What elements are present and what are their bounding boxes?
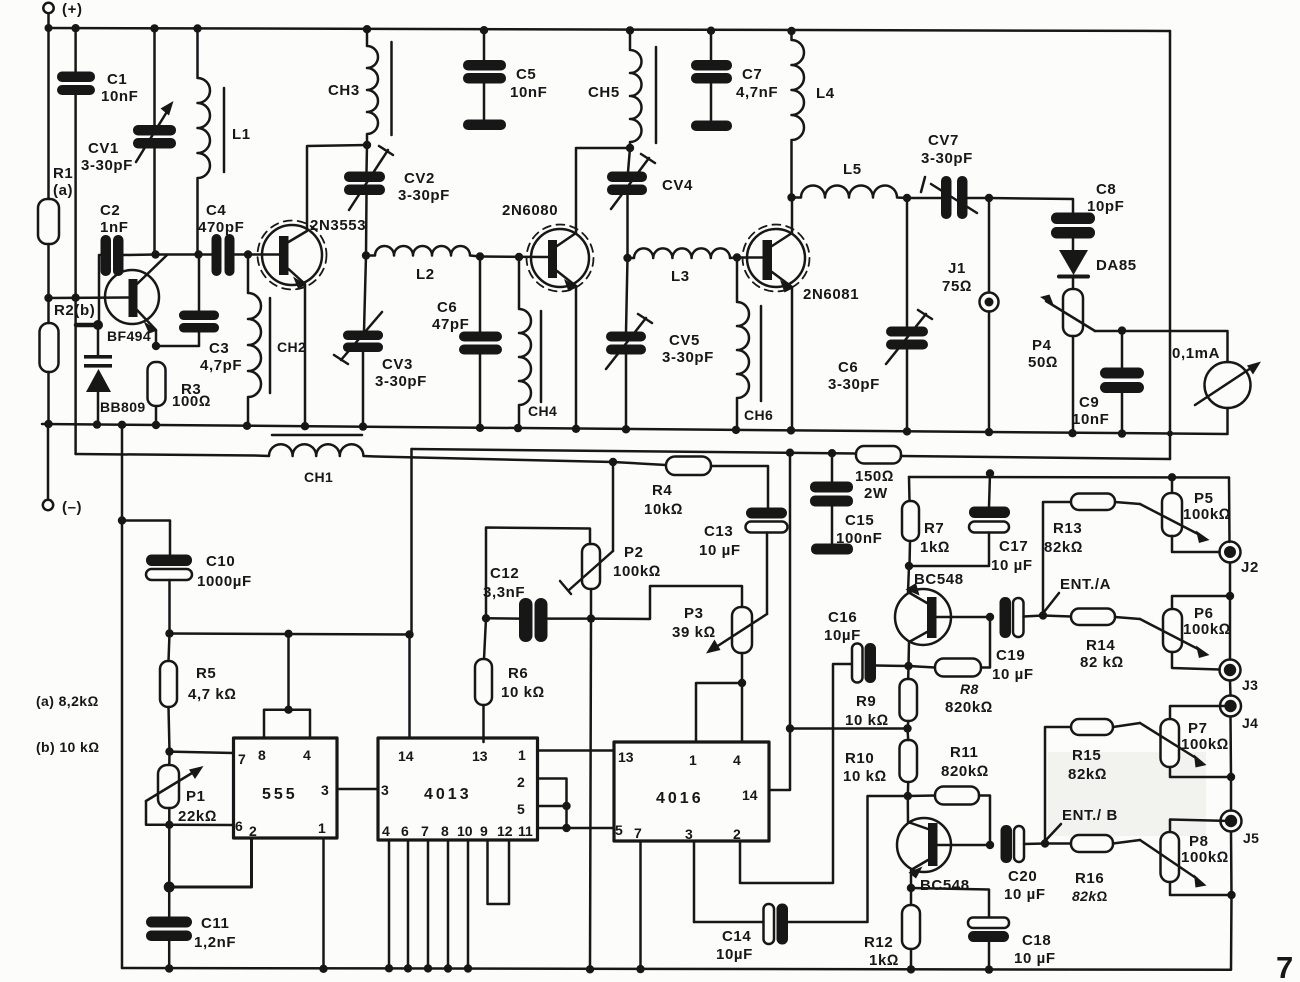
capacitor C1: [57, 72, 95, 96]
node C1 top: [71, 24, 79, 32]
node ground left: [44, 420, 52, 428]
svg-text:11: 11: [518, 823, 533, 839]
svg-text:CH1: CH1: [304, 469, 333, 485]
svg-text:C17: C17: [999, 538, 1028, 555]
node 555 pin1 ground: [319, 965, 327, 973]
wire P4 wiper to meter line: [1095, 331, 1228, 362]
resistor R6: [475, 618, 492, 742]
node CH3 top: [363, 25, 371, 33]
svg-text:4,7 kΩ: 4,7 kΩ: [188, 686, 236, 703]
node CH4 ground: [514, 424, 522, 432]
op-amp U1 555: [234, 634, 379, 969]
node 4016 pin14 riser top: [786, 449, 794, 457]
svg-text:C6: C6: [838, 359, 858, 376]
node P7 bottom bus: [1227, 773, 1235, 781]
svg-text:R12: R12: [864, 934, 893, 951]
resistor R4: [613, 457, 768, 509]
potentiometer P1: [146, 752, 204, 825]
inductor L1: [198, 29, 225, 255]
wire R2 bottom to ground: [47, 372, 50, 424]
svg-text:CV5: CV5: [669, 332, 700, 349]
node V+ left: [165, 629, 173, 637]
svg-text:10nF: 10nF: [101, 88, 138, 105]
node 555 pin7 tap: [165, 747, 173, 755]
svg-text:4: 4: [382, 823, 390, 839]
resistor R12: [902, 888, 920, 969]
svg-text:P3: P3: [684, 605, 704, 622]
svg-text:(b) 10 kΩ: (b) 10 kΩ: [36, 739, 99, 755]
node 555 supply bracket: [284, 706, 292, 714]
svg-text:3-30pF: 3-30pF: [398, 187, 450, 204]
node 4013 ground pins: [385, 964, 472, 973]
svg-text:4,7pF: 4,7pF: [200, 357, 242, 374]
node BB809 top: [93, 320, 103, 330]
svg-text:1kΩ: 1kΩ: [869, 952, 899, 969]
node C15 top: [828, 449, 836, 457]
svg-text:2: 2: [517, 774, 525, 790]
wire P3 bottom bracket to 4016 pins 1 and 4: [696, 683, 742, 742]
wire B+ branch down to logic supply: [410, 449, 413, 635]
potentiometer P5: [1140, 477, 1220, 552]
transistor BF494: [105, 255, 167, 346]
node L1 top: [193, 24, 201, 32]
resistor R1: [38, 199, 59, 244]
resistor R7: [902, 501, 919, 541]
node CV7 right J1: [985, 194, 993, 202]
svg-text:2: 2: [733, 826, 741, 842]
node CH2 ground: [243, 422, 251, 430]
node 2N6080 emitter ground: [572, 425, 580, 433]
node R9 R10 junction: [903, 724, 911, 732]
resistor R9: [900, 666, 918, 729]
label 555 pins: [235, 747, 329, 839]
svg-text:J3: J3: [1242, 677, 1258, 693]
wire bus J5 to bottom rail: [1230, 895, 1233, 970]
label ENT./B: [1046, 807, 1118, 840]
node base B C20 R11: [986, 841, 994, 849]
wire ground to minus terminal: [47, 424, 50, 500]
svg-text:3,3nF: 3,3nF: [483, 584, 525, 601]
transistor Q4 BC548: [895, 566, 990, 666]
node C5 top: [480, 26, 488, 34]
svg-text:3-30pF: 3-30pF: [828, 376, 880, 393]
svg-text:P4: P4: [1032, 337, 1052, 354]
svg-text:7: 7: [1276, 950, 1293, 982]
potentiometer P2: [560, 462, 613, 619]
node P2 ground: [586, 965, 594, 973]
resistor R10: [900, 729, 918, 797]
node 2N6081 emitter ground: [787, 426, 795, 434]
node BB809 ground: [93, 420, 101, 428]
svg-text:100nF: 100nF: [836, 530, 882, 547]
svg-text:C8: C8: [1096, 181, 1116, 198]
node ENT B: [1041, 839, 1049, 847]
svg-text:(+): (+): [62, 1, 83, 18]
svg-text:10 µF: 10 µF: [1014, 950, 1056, 967]
node L3 left: [623, 254, 631, 262]
node CH6 ground: [732, 426, 740, 434]
transistor Q2 2N6080: [527, 148, 631, 428]
svg-text:10 µF: 10 µF: [991, 557, 1033, 574]
svg-text:10µF: 10µF: [824, 627, 861, 644]
wire P1 column to C11: [168, 825, 171, 917]
inductor CH4: [519, 257, 541, 428]
node P4 ground: [1068, 429, 1076, 437]
wire R6 bracket to P2 top: [486, 528, 590, 619]
jack J3: [1220, 660, 1241, 696]
node 4013 pin14 supply tap: [405, 630, 413, 638]
node ENT A: [1039, 611, 1047, 619]
svg-text:3: 3: [321, 782, 329, 798]
svg-text:C7: C7: [742, 66, 762, 83]
meter 0,1mA: [1195, 362, 1261, 435]
svg-text:R9: R9: [856, 693, 876, 710]
wire C2 right to collector line: [124, 253, 156, 256]
svg-text:75Ω: 75Ω: [942, 278, 972, 295]
svg-text:J5: J5: [1243, 830, 1259, 846]
trimmer CV7: [907, 176, 989, 219]
inductor CH2: [248, 255, 270, 425]
svg-text:R16: R16: [1075, 870, 1104, 887]
svg-text:8: 8: [258, 747, 266, 763]
node 2N3553 base: [244, 250, 252, 258]
wire C4 right to 2N3553 base: [235, 253, 279, 256]
capacitor C4: [212, 234, 235, 276]
svg-text:7: 7: [634, 825, 642, 841]
capacitor C17: [909, 474, 1010, 567]
potentiometer P4: [1040, 289, 1095, 434]
trimmer CV1: [133, 101, 176, 162]
svg-text:1000µF: 1000µF: [197, 573, 252, 590]
svg-text:P6: P6: [1194, 605, 1214, 622]
svg-text:10 kΩ: 10 kΩ: [843, 768, 887, 785]
svg-text:P5: P5: [1194, 490, 1214, 507]
inductor CH3: [367, 29, 392, 145]
node C18 ground: [985, 965, 993, 973]
node C9 top: [1118, 326, 1126, 334]
svg-text:3-30pF: 3-30pF: [375, 373, 427, 390]
wire bus J2 to J3: [1229, 596, 1232, 660]
capacitor C12: [486, 598, 591, 642]
trimmer CV2: [344, 145, 393, 255]
node emitter C16 R8 R9: [904, 662, 912, 670]
IC U3 4016: [614, 453, 852, 969]
svg-text:R15: R15: [1072, 747, 1101, 764]
inductor CH5: [630, 30, 656, 148]
transistor Q5 BC548: [897, 796, 990, 888]
svg-text:3-30pF: 3-30pF: [662, 349, 714, 366]
svg-text:100kΩ: 100kΩ: [1183, 621, 1231, 638]
label 4016 pins: [615, 749, 758, 842]
trimmer CV4: [607, 148, 655, 258]
wire bottom rail: [122, 968, 1231, 970]
node CH5 top: [626, 26, 634, 34]
trimmer CV5: [606, 258, 652, 428]
wire riser to R9 R10 junction: [790, 727, 908, 730]
capacitor C6 47pF: [459, 257, 502, 429]
node C10 branch: [118, 516, 126, 524]
node CV3 ground: [359, 422, 367, 430]
capacitor C7: [691, 31, 732, 131]
svg-text:L1: L1: [232, 126, 251, 143]
wire CV1 bottom stub: [153, 148, 156, 255]
node 2N6080 base: [515, 253, 523, 261]
svg-text:10kΩ: 10kΩ: [644, 501, 683, 518]
svg-text:C9: C9: [1079, 394, 1099, 411]
node P3 bottom: [738, 679, 746, 687]
capacitor C9: [1100, 331, 1144, 434]
svg-text:R7: R7: [924, 520, 944, 537]
svg-text:R5: R5: [196, 665, 216, 682]
svg-text:R6: R6: [508, 665, 528, 682]
wire pin6: [169, 824, 233, 827]
svg-text:ENT./ B: ENT./ B: [1062, 807, 1118, 824]
label 4013 pins: [381, 747, 533, 839]
svg-text:R10: R10: [845, 750, 874, 767]
svg-text:C12: C12: [490, 565, 519, 582]
wire lower-left tap column: [121, 425, 124, 968]
resistor 150ohm 2W: [856, 446, 901, 464]
resistor R15: [1045, 719, 1140, 844]
transistor Q3 2N6081: [737, 198, 810, 431]
svg-text:J2: J2: [1241, 559, 1259, 576]
wire C1 bottom column: [74, 95, 77, 454]
wire R2 top stub: [47, 298, 50, 323]
svg-text:10: 10: [457, 823, 473, 839]
svg-text:C5: C5: [516, 66, 536, 83]
wire out line left drop to R7: [908, 477, 911, 501]
svg-text:R1: R1: [53, 165, 73, 182]
svg-text:5: 5: [517, 801, 525, 817]
node 555 supply tap: [284, 630, 292, 638]
svg-text:C20: C20: [1008, 868, 1037, 885]
jack J1: [980, 198, 999, 431]
wire base line: [49, 296, 129, 299]
svg-text:6: 6: [235, 818, 243, 834]
svg-text:CV4: CV4: [662, 177, 693, 194]
node C12 left R6 top: [482, 614, 490, 622]
node CV1 top: [150, 24, 158, 32]
node CH3 bottom: [363, 141, 371, 149]
svg-text:L5: L5: [843, 161, 862, 178]
svg-text:ENT./A: ENT./A: [1060, 576, 1111, 593]
svg-text:820kΩ: 820kΩ: [941, 763, 989, 780]
resistor R3: [148, 362, 166, 425]
node L5 right: [903, 194, 911, 202]
svg-text:BC548: BC548: [914, 571, 964, 588]
node 555 pin6 tap: [165, 821, 173, 829]
wire C2 left plate down to BB809 node: [99, 255, 101, 325]
resistor R13: [1043, 494, 1140, 616]
svg-text:1: 1: [518, 747, 526, 763]
svg-text:0,1mA: 0,1mA: [1172, 345, 1220, 362]
svg-text:10 µF: 10 µF: [699, 542, 741, 559]
wire emitter B to C18: [911, 888, 989, 918]
svg-text:4016: 4016: [656, 790, 704, 807]
node C17 top: [986, 469, 994, 477]
node R10 R11 base junction: [904, 792, 912, 800]
svg-text:6: 6: [401, 823, 409, 839]
label ENT./A: [1044, 576, 1111, 612]
svg-text:4: 4: [733, 752, 741, 768]
node P5 top: [1168, 473, 1176, 481]
potentiometer P8: [1140, 820, 1232, 896]
svg-text:2W: 2W: [864, 485, 888, 502]
svg-text:CH2: CH2: [277, 339, 306, 355]
node 4013 pin11 tie: [562, 824, 570, 832]
svg-text:5: 5: [615, 822, 623, 838]
svg-text:(a) 8,2kΩ: (a) 8,2kΩ: [36, 693, 99, 709]
svg-text:47pF: 47pF: [432, 316, 469, 333]
wire left column R1 top: [47, 28, 50, 199]
node C9 ground: [1118, 429, 1126, 437]
wire thick link to BB809 node: [76, 323, 97, 328]
capacitor C10: [146, 555, 192, 634]
inductor CH6: [737, 258, 761, 431]
svg-text:1: 1: [318, 820, 326, 836]
svg-text:CV7: CV7: [928, 132, 959, 149]
svg-text:22kΩ: 22kΩ: [178, 808, 217, 825]
svg-text:12: 12: [497, 823, 513, 839]
svg-text:2N6081: 2N6081: [803, 286, 859, 303]
svg-text:7: 7: [238, 751, 246, 767]
node 555 pin2 tap: [164, 882, 175, 893]
svg-text:3: 3: [685, 826, 693, 842]
node emitter C3: [152, 342, 160, 350]
wire top rail: [49, 28, 1171, 31]
wire 150ohm right to border: [901, 456, 1170, 459]
wire ground rail: [42, 424, 1227, 434]
svg-text:3-30pF: 3-30pF: [81, 157, 133, 174]
svg-text:L4: L4: [816, 85, 835, 102]
svg-text:10 kΩ: 10 kΩ: [845, 712, 889, 729]
svg-text:4013: 4013: [424, 786, 472, 803]
terminal (+): [43, 3, 53, 13]
capacitor C18: [968, 918, 1009, 970]
svg-text:82kΩ: 82kΩ: [1068, 766, 1107, 783]
svg-text:2N3553: 2N3553: [310, 217, 366, 234]
svg-text:CV3: CV3: [382, 356, 413, 373]
svg-text:BC548: BC548: [920, 877, 970, 894]
svg-text:J4: J4: [1242, 715, 1258, 731]
svg-text:P8: P8: [1189, 833, 1209, 850]
node top rail corner: [45, 24, 53, 32]
svg-text:J1: J1: [948, 260, 966, 277]
svg-text:P1: P1: [186, 788, 206, 805]
wire L2 right to 2N6080 base: [480, 255, 548, 258]
node pin14 riser R9 branch: [786, 724, 794, 732]
node L2 left: [362, 251, 370, 259]
node L4 L5 junction: [787, 193, 795, 201]
wire C1 top stub: [74, 28, 77, 72]
capacitor C15: [810, 453, 853, 554]
wire (+) to top rail: [47, 13, 50, 28]
svg-text:14: 14: [398, 748, 414, 764]
svg-text:4,7nF: 4,7nF: [736, 84, 778, 101]
wire B+ branch line: [412, 449, 857, 454]
svg-text:C3: C3: [209, 340, 229, 357]
capacitor C3: [156, 255, 219, 347]
svg-text:L2: L2: [416, 266, 435, 283]
node C11 ground: [165, 964, 173, 972]
wire CV1 top stub: [153, 28, 156, 125]
svg-text:R11: R11: [950, 744, 979, 761]
node P6 top bus: [1226, 592, 1234, 600]
node R3 ground: [152, 421, 160, 429]
potentiometer P6: [1140, 596, 1230, 670]
jack J5: [1221, 811, 1242, 896]
capacitor C20: [1001, 825, 1046, 863]
resistor R16: [1045, 835, 1140, 852]
svg-text:C15: C15: [845, 512, 874, 529]
wire bus J4 to J5: [1230, 777, 1233, 811]
jack J4: [1220, 696, 1241, 778]
inductor CH1 with feed line: [76, 435, 613, 462]
svg-text:2: 2: [249, 823, 257, 839]
svg-text:BF494: BF494: [107, 328, 151, 344]
svg-text:10µF: 10µF: [716, 946, 753, 963]
svg-text:150Ω: 150Ω: [855, 468, 894, 485]
svg-text:2N6080: 2N6080: [502, 202, 558, 219]
svg-text:CH5: CH5: [588, 84, 620, 101]
svg-text:C6: C6: [437, 299, 457, 316]
svg-text:10 µF: 10 µF: [992, 666, 1034, 683]
resistor R8: [909, 617, 991, 677]
capacitor C13: [746, 508, 788, 615]
wire P2 ground column: [590, 619, 591, 970]
node C7 top: [707, 27, 715, 35]
svg-text:39 kΩ: 39 kΩ: [672, 624, 716, 641]
svg-text:P7: P7: [1188, 720, 1208, 737]
svg-text:14: 14: [742, 787, 758, 803]
svg-text:7: 7: [421, 823, 429, 839]
svg-text:555: 555: [262, 786, 298, 803]
svg-text:10nF: 10nF: [1072, 411, 1109, 428]
node base A C19 R8: [986, 613, 994, 621]
node P2 C12 right: [587, 614, 595, 622]
svg-text:3-30pF: 3-30pF: [921, 150, 973, 167]
inductor L4: [792, 31, 805, 198]
svg-text:8: 8: [441, 823, 449, 839]
node 4013 pin5 tie: [562, 802, 570, 810]
svg-text:CH6: CH6: [744, 407, 773, 423]
node CV1 collector line: [151, 250, 159, 258]
svg-text:100Ω: 100Ω: [172, 393, 211, 410]
svg-text:100kΩ: 100kΩ: [1183, 506, 1231, 523]
wire right border down: [1169, 31, 1172, 459]
capacitor C11: [146, 917, 192, 969]
trimmer CV3: [334, 256, 383, 425]
svg-text:C13: C13: [704, 523, 733, 540]
IC U2 4013: [378, 635, 614, 969]
wire V+ line: [170, 634, 411, 635]
svg-text:100kΩ: 100kΩ: [1181, 849, 1229, 866]
resistor R11: [908, 787, 990, 846]
node L2 right: [476, 252, 484, 260]
svg-text:9: 9: [480, 823, 488, 839]
inductor L5: [792, 186, 908, 199]
node C6 ground: [476, 424, 484, 432]
capacitor C5: [463, 30, 506, 130]
diode DA85: [1059, 239, 1088, 290]
capacitor C8: [1051, 213, 1095, 239]
svg-text:R13: R13: [1053, 520, 1082, 537]
node L1 bottom collector line: [194, 250, 202, 258]
svg-text:C4: C4: [206, 202, 226, 219]
capacitor C19: [1000, 597, 1044, 638]
varicap BB809: [84, 325, 112, 424]
svg-text:C1: C1: [107, 71, 127, 88]
